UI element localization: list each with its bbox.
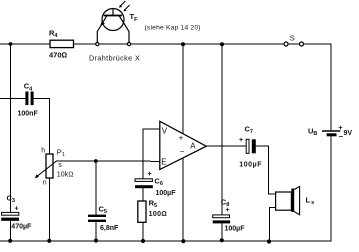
capacitor C6 electrolytic bbox=[135, 169, 176, 197]
capacitor C7 electrolytic bbox=[239, 125, 262, 169]
svg-text:n: n bbox=[43, 179, 47, 186]
TF collector lead bbox=[119, 16, 129, 43]
svg-text:E: E bbox=[161, 158, 166, 167]
junction node top rail amp supply bbox=[181, 42, 185, 46]
wire left rail through C3 bbox=[10, 44, 12, 241]
TF emitter lead bbox=[97, 16, 107, 43]
svg-text:100µF: 100µF bbox=[239, 161, 262, 168]
svg-text:100µF: 100µF bbox=[156, 190, 177, 197]
resistor R5 bbox=[138, 199, 167, 223]
wire C6 bottom to R5 top bbox=[142, 188, 144, 201]
junction node top rail left bbox=[9, 42, 13, 46]
svg-text:6,8nF: 6,8nF bbox=[100, 225, 119, 232]
svg-text:9V: 9V bbox=[344, 130, 353, 137]
svg-text:+: + bbox=[147, 169, 152, 178]
svg-text:(siehe Kap 14 20): (siehe Kap 14 20) bbox=[145, 24, 201, 31]
svg-text:Drahtbrücke X: Drahtbrücke X bbox=[89, 54, 140, 63]
capacitor C4 bbox=[18, 82, 39, 118]
battery UB bbox=[308, 123, 352, 141]
svg-text:10kΩ: 10kΩ bbox=[57, 171, 74, 178]
wire speaker bottom terminal to ground rail bbox=[270, 208, 276, 242]
capacitor C3 electrolytic bbox=[1, 193, 32, 230]
svg-text:−: − bbox=[180, 147, 185, 156]
svg-text:100Ω: 100Ω bbox=[149, 211, 167, 218]
junction node ground rail speaker bbox=[267, 239, 271, 243]
svg-text:100nF: 100nF bbox=[18, 110, 39, 117]
junction node top rail C8 bbox=[220, 42, 224, 46]
svg-text:+: + bbox=[239, 135, 244, 144]
wire bottom ground rail bbox=[0, 240, 331, 242]
TF base bar bbox=[104, 15, 122, 17]
junction node ground rail C5 bbox=[94, 238, 98, 242]
switch S bbox=[284, 34, 304, 46]
battery long plus plate bbox=[322, 130, 340, 132]
wire C5 branch to ground rail bbox=[95, 161, 97, 241]
svg-text:V: V bbox=[162, 127, 168, 136]
TF emitter arrowhead bbox=[100, 21, 105, 26]
junction node ground rail C8 bbox=[220, 238, 224, 242]
svg-text:+: + bbox=[14, 203, 19, 212]
svg-text:+: + bbox=[225, 205, 230, 214]
wire C7 to speaker top terminal bbox=[256, 146, 276, 194]
wire top supply rail bbox=[0, 43, 331, 45]
junction node wiper C5 bbox=[94, 159, 98, 163]
P1 wiper arrow bbox=[38, 161, 57, 176]
wire C8 branch from top rail to ground rail bbox=[221, 44, 223, 241]
wire C4 branch from left edge to P1 top bbox=[0, 98, 50, 154]
wire from amp bottom edge to ground rail bbox=[182, 158, 184, 241]
capacitor C8 electrolytic bbox=[213, 197, 246, 232]
wire right vertical rail to battery plus bbox=[330, 44, 332, 131]
resistor R4 bbox=[49, 28, 74, 59]
phototransistor TF bbox=[97, 1, 130, 43]
loudspeaker Ls bbox=[276, 186, 315, 214]
wire R5 bottom to ground rail bbox=[142, 222, 144, 241]
svg-text:+: + bbox=[179, 133, 184, 142]
junction node ground rail amp bbox=[181, 239, 185, 243]
wire supply from top rail into amp top edge bbox=[182, 44, 184, 134]
svg-text:h: h bbox=[41, 147, 45, 154]
light arrows bbox=[120, 1, 130, 10]
wire amp V input to C6 top bbox=[143, 129, 160, 179]
svg-text:s: s bbox=[58, 162, 62, 169]
wire battery minus to bottom rail bbox=[330, 135, 332, 241]
amplifier block U1 triangle bbox=[160, 121, 207, 169]
junction node ground rail P1 bbox=[47, 239, 51, 243]
TF base lead bbox=[112, 9, 114, 16]
junction node ground rail R5 bbox=[141, 239, 145, 243]
wire P1 bottom to ground rail bbox=[48, 178, 50, 241]
wire amp output A to C7 bbox=[206, 145, 246, 147]
terminal node right of wire bridge bbox=[127, 43, 130, 46]
svg-text:470Ω: 470Ω bbox=[49, 50, 68, 59]
junction node ground rail left bbox=[8, 239, 12, 243]
svg-text:S: S bbox=[290, 34, 295, 43]
battery short minus plate bbox=[327, 133, 337, 136]
capacitor C5 bbox=[88, 205, 119, 232]
svg-text:A: A bbox=[190, 141, 196, 150]
svg-text:100µF: 100µF bbox=[225, 225, 246, 232]
wire P1 wiper to amp input E bbox=[57, 160, 160, 162]
terminal node left of wire bridge bbox=[96, 43, 99, 46]
potentiometer P1 bbox=[35, 147, 74, 186]
svg-text:470µF: 470µF bbox=[11, 224, 32, 231]
TF housing circle bbox=[102, 9, 124, 31]
